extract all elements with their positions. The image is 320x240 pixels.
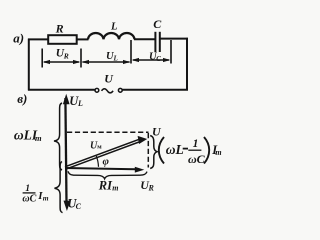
svg-text:U: U: [104, 71, 114, 85]
dimension arrow UL: [82, 60, 131, 64]
svg-text:L: L: [110, 22, 117, 33]
angle phi arc: [96, 156, 98, 167]
underbrace RIm: [68, 171, 147, 179]
wire top-left (source to resistor): [28, 38, 49, 40]
svg-text:R: R: [55, 22, 64, 36]
axis UL-UC (vertical phasor axis): [63, 94, 71, 211]
svg-text:ωL: ωL: [166, 142, 184, 157]
vector UR (horizontal): [65, 167, 144, 173]
svg-text:U: U: [152, 124, 162, 138]
svg-text:L: L: [113, 55, 118, 63]
label в): [17, 91, 27, 106]
label wLIm: [14, 127, 42, 143]
inductor L: [88, 33, 135, 39]
dimension arrow UC: [132, 58, 171, 62]
svg-text:L: L: [77, 99, 83, 108]
brace right (reactive voltage): [150, 136, 157, 169]
wire resistor to inductor: [77, 38, 89, 40]
svg-text:а): а): [13, 30, 24, 45]
brace for (1/wC)Im: [55, 162, 63, 213]
capacitor C: [155, 32, 159, 52]
wire bottom-right: [123, 89, 189, 91]
formula (wL - 1/wC)Im: [159, 137, 222, 166]
brace for wLIm: [54, 103, 62, 170]
svg-text:φ: φ: [103, 156, 110, 168]
svg-text:RI: RI: [98, 179, 113, 193]
svg-text:m: m: [215, 148, 221, 157]
svg-text:C: C: [153, 17, 162, 31]
label U (phasor tip): [152, 124, 162, 138]
label C: [153, 17, 162, 31]
label UL (circuit): [106, 51, 118, 62]
wire bottom-left: [28, 89, 95, 91]
source sine symbol: [102, 89, 114, 93]
source terminal right: [118, 88, 122, 92]
label UC (phasor): [67, 196, 81, 211]
node tick E (right of capacitor): [170, 40, 172, 64]
dashed construction line vertical: [147, 133, 149, 168]
label phi: [103, 156, 110, 168]
svg-text:в): в): [17, 91, 27, 106]
svg-text:R: R: [63, 51, 69, 60]
svg-text:m: m: [112, 184, 118, 193]
source terminal left: [95, 88, 99, 92]
label UL (phasor): [69, 94, 83, 108]
label (1/wC)Im: [22, 184, 48, 204]
svg-text:m: m: [35, 133, 42, 143]
label U (source): [104, 71, 114, 85]
node tick B (between R and L): [80, 49, 82, 68]
wire capacitor to right: [161, 38, 189, 40]
dimension arrow UR: [43, 60, 81, 64]
label UR (phasor): [140, 178, 154, 193]
svg-text:C: C: [156, 55, 161, 63]
svg-text:m: m: [43, 193, 49, 202]
svg-text:R: R: [148, 184, 155, 193]
svg-text:ωC: ωC: [22, 194, 36, 205]
svg-text:C: C: [76, 202, 82, 211]
wire inductor to capacitor: [134, 38, 155, 40]
node tick A (left of resistor): [41, 49, 43, 68]
label RIm: [98, 179, 119, 193]
resistor R: [48, 35, 76, 44]
svg-text:1: 1: [193, 138, 199, 150]
svg-text:ωC: ωC: [188, 152, 206, 166]
label UR (circuit): [56, 48, 69, 61]
svg-text:м: м: [97, 144, 102, 151]
wire right vertical: [186, 38, 188, 91]
node tick D (between L and C): [130, 40, 132, 64]
label Um: [90, 140, 102, 151]
vector Um (resultant): [65, 136, 147, 169]
label R: [55, 22, 64, 36]
label L: [110, 22, 117, 33]
wire left vertical: [28, 39, 30, 91]
label UC (circuit): [149, 51, 161, 63]
label а): [13, 30, 24, 45]
dashed construction line horizontal: [67, 131, 149, 133]
